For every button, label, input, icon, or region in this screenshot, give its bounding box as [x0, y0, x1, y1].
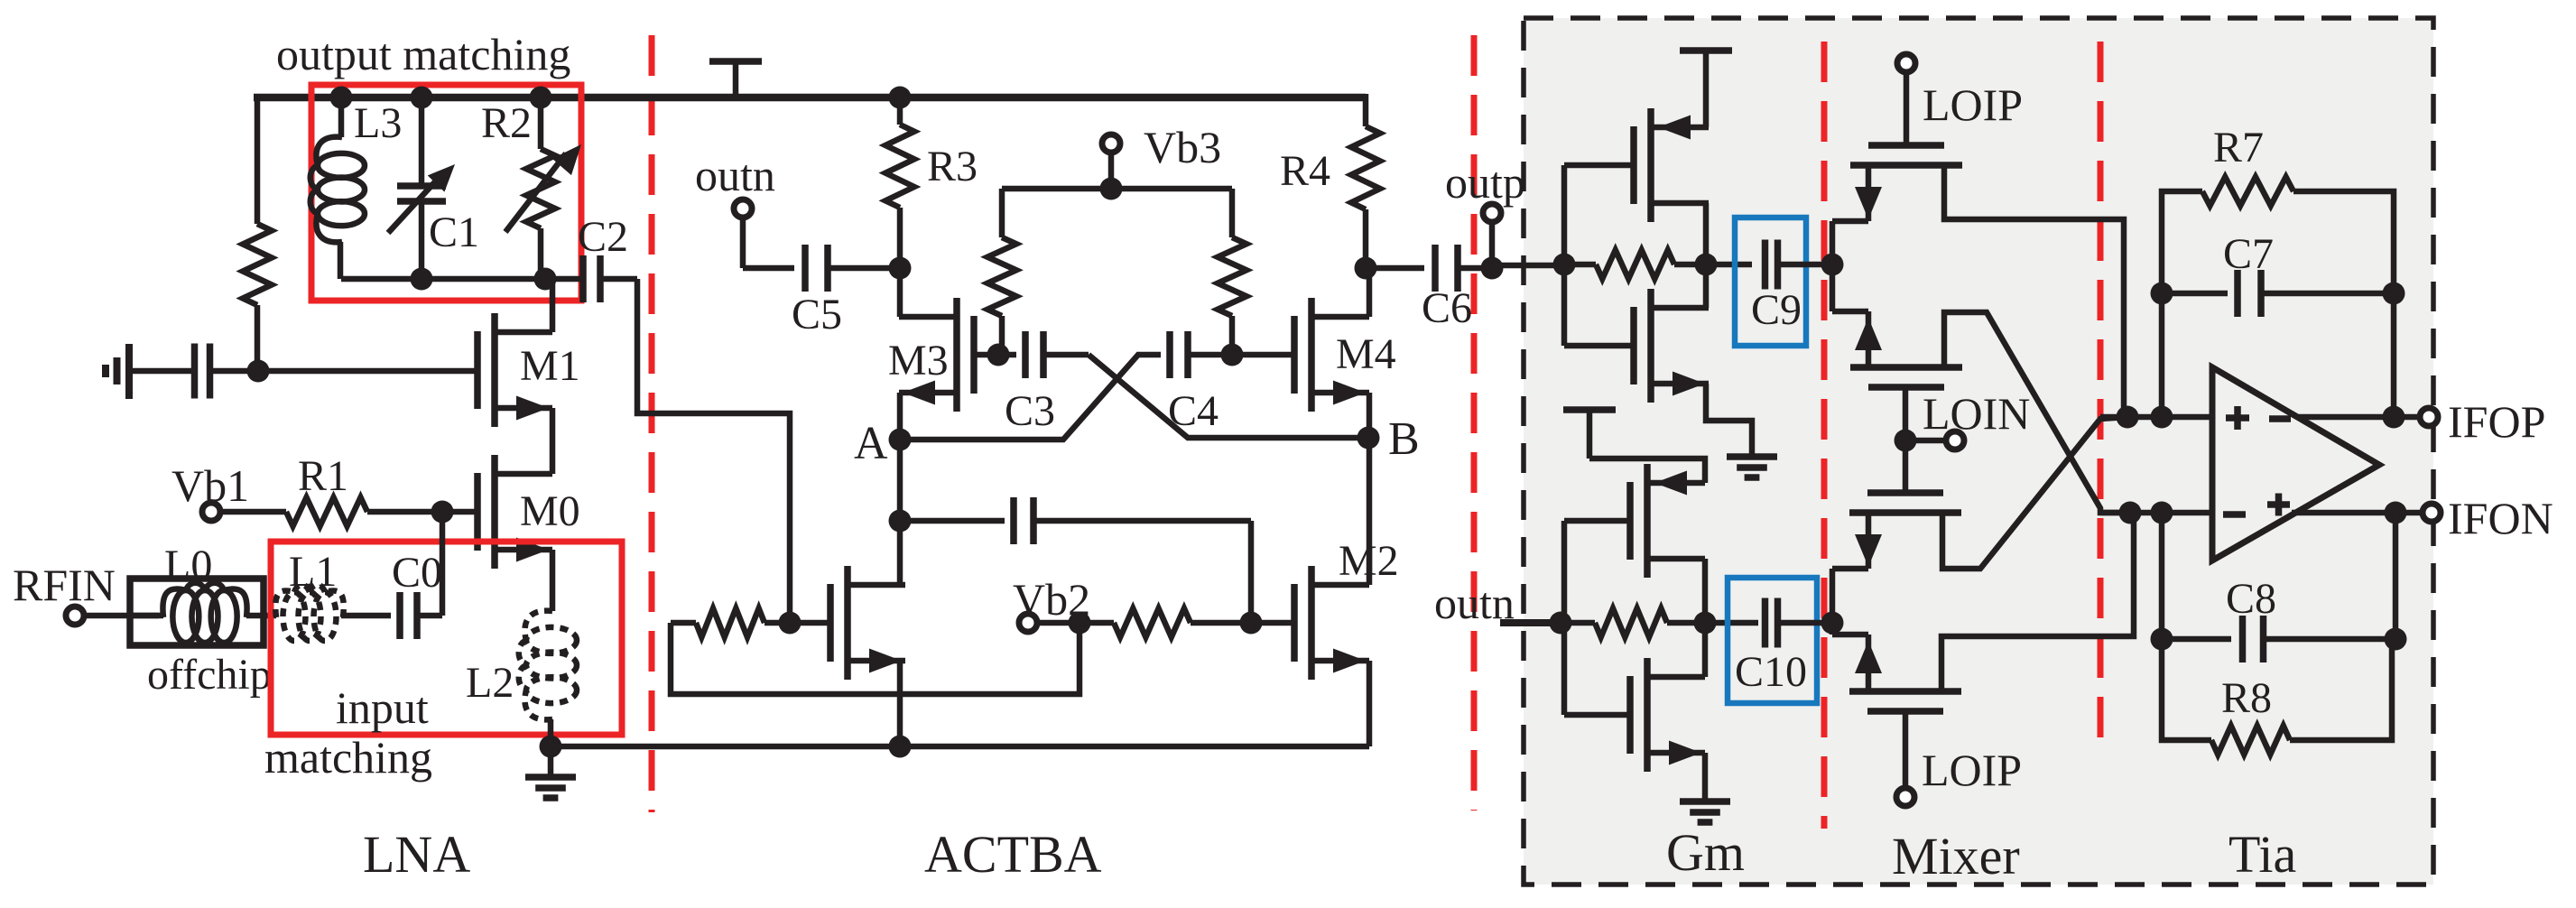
wire: Gm lower PMOS source to VDD: [1589, 459, 1705, 483]
capacitor (M1 gate decoupling, unlabeled): [129, 344, 258, 399]
wire: bias resistor to M1 gate node: [255, 305, 261, 371]
node: R7/C7 left: [2151, 283, 2173, 305]
wire: M3 drain up to R3 node: [897, 268, 903, 317]
variable capacitor C1: [388, 97, 455, 279]
node: rail / R2 top: [530, 87, 552, 109]
transistor (Gm upper NMOS): [1634, 289, 1709, 403]
wire: bottom source rail (LNA to M2): [551, 744, 1369, 750]
label R8: [2221, 674, 2272, 722]
wire: op-amp to IFON: [2292, 510, 2432, 516]
svg-text:R8: R8: [2221, 674, 2272, 722]
label M2: [1339, 537, 1399, 585]
svg-text:IFON: IFON: [2448, 493, 2553, 543]
label C10: [1735, 648, 1807, 696]
node: Gm lower input: [1550, 612, 1572, 635]
wire: Gm upper NMOS gate lead: [1564, 343, 1634, 349]
svg-text:LOIN: LOIN: [1923, 388, 2030, 439]
node: outp junction: [1481, 257, 1504, 280]
label Tia: [2229, 825, 2296, 884]
VDD top rail: [254, 94, 1366, 102]
op-amp (fully differential TIA amplifier): [2212, 367, 2379, 561]
svg-text:R2: R2: [481, 99, 532, 147]
terminal Vb1: [202, 503, 220, 521]
svg-text:B: B: [1388, 413, 1420, 465]
wire: Gm lower PMOS drain to feedback node: [1702, 559, 1709, 623]
wire: M4 drain up to R4 node: [1367, 268, 1373, 317]
node: A-column / coupling cap: [889, 510, 912, 533]
wire: upper-pair LOIN device output (diagonal to IFON row): [1944, 312, 2130, 513]
svg-text:LNA: LNA: [363, 825, 470, 884]
label M1: [520, 342, 580, 390]
label C3: [1005, 387, 1055, 435]
node: R3 bottom / C5 / M3 drain: [889, 257, 912, 280]
resistor (Gm lower feedback, unlabeled): [1561, 608, 1705, 637]
node: Vb3 junction: [1100, 178, 1123, 200]
transistor M2: [1294, 566, 1369, 680]
capacitor C0: [400, 592, 442, 639]
terminal Vb3: [1102, 134, 1120, 153]
label M3: [888, 337, 949, 385]
label R2: [481, 99, 532, 147]
capacitor C4: [1170, 331, 1232, 378]
resistor (Vb3 right bias): [1218, 189, 1246, 355]
svg-text:L2: L2: [466, 659, 514, 707]
terminal IFON: [2423, 504, 2441, 522]
wire: Gm upper PMOS gate lead: [1564, 162, 1634, 169]
label IFOP: [2448, 396, 2545, 447]
label LOIP (upper): [1923, 79, 2023, 130]
node: rail / L3 top: [330, 87, 353, 109]
node: IFOP: [2383, 406, 2405, 429]
label R3: [927, 143, 978, 190]
label M4: [1336, 330, 1396, 378]
transistor M0 (LNA input device): [477, 455, 552, 569]
label A: [854, 418, 888, 469]
terminal LOIP (lower): [1896, 788, 1914, 806]
capacitor C9: [1765, 240, 1833, 290]
wire: M3 source down to node A: [897, 393, 903, 440]
label input: [336, 682, 429, 733]
blue box around C9: [1735, 218, 1806, 346]
label Vb3: [1144, 122, 1221, 172]
resistor (feedback transistor gate, unlabeled): [671, 608, 790, 637]
wire: lower-pair LOIP device output: [1941, 513, 2134, 691]
wire: Gm upper NMOS source to ground: [1706, 384, 1752, 457]
node: IFON: [2385, 502, 2407, 524]
inductor L0: [130, 583, 264, 643]
svg-text:C9: C9: [1751, 286, 1802, 334]
svg-text:output matching: output matching: [276, 29, 570, 79]
svg-text:ACTBA: ACTBA: [924, 825, 1102, 884]
capacitor C2: [583, 255, 637, 302]
svg-text:R3: R3: [927, 143, 978, 190]
wire: Gm lower NMOS source to ground: [1702, 753, 1709, 801]
wire: M2 drain up to node B: [1367, 438, 1373, 585]
transistor (ACTBA feedback, unlabeled): [830, 566, 905, 680]
wire: outn stub into Gm: [1500, 619, 1561, 626]
label matching: [264, 732, 432, 783]
transistor (Gm lower NMOS): [1630, 658, 1705, 772]
node: bottom rail / ACTBA tail: [889, 736, 912, 758]
transistor (Gm lower PMOS): [1630, 464, 1705, 578]
wire+arrow: lower-pair LOIN device left lead: [1832, 513, 1882, 569]
wire: M1 source to M0 drain: [550, 408, 556, 474]
wire: IFOP row into op-amp: [2100, 414, 2212, 421]
wire+arrow: upper-pair LOIN device left lead: [1832, 311, 1882, 366]
red dashed separator line (ACTBA | Gm): [1471, 35, 1478, 811]
wire: rail right corner: [1363, 94, 1369, 126]
node B: [1357, 427, 1380, 449]
wire: feedback left column to + input: [2159, 293, 2165, 417]
node: M0 gate / C0 junction: [431, 501, 454, 523]
node: C9 / mixer input (upper): [1821, 254, 1844, 276]
inductor L1 (on-chip, dashed): [275, 585, 344, 641]
svg-text:offchip: offchip: [147, 651, 272, 699]
ground symbol (Gm upper): [1727, 457, 1777, 477]
ground symbol (Gm lower): [1680, 801, 1730, 822]
svg-text:C7: C7: [2223, 230, 2274, 278]
red dashed separator line (Gm | Mixer): [1821, 42, 1828, 829]
wire: M0 source to L2: [550, 550, 556, 611]
node: mixer output / op-amp + input (a): [2117, 406, 2139, 429]
label IFON: [2448, 493, 2553, 543]
svg-text:Mixer: Mixer: [1892, 827, 2020, 885]
label L0: [164, 542, 212, 589]
inductor L2 (degeneration, dashed): [519, 611, 577, 746]
label M0: [520, 487, 580, 535]
node: R4 bottom / C6: [1355, 257, 1377, 280]
capacitor C8: [2162, 616, 2395, 662]
capacitor C5: [743, 219, 900, 292]
label L3: [354, 99, 402, 147]
terminal IFOP: [2420, 408, 2438, 426]
wire: Gm lower NMOS gate lead: [1564, 712, 1630, 718]
svg-text:R7: R7: [2213, 124, 2264, 171]
wire: M4 gate lead: [1232, 352, 1295, 358]
wire: mixer upper input vertical: [1830, 221, 1836, 311]
wire: Vb3 rail: [1002, 186, 1232, 192]
red box around output matching network: [311, 85, 581, 301]
label ACTBA: [924, 825, 1102, 884]
label L2: [466, 659, 514, 707]
transistor (mixer lower pair, LOIP device): [1849, 691, 1961, 711]
node: C8/R8 right: [2385, 628, 2407, 651]
capacitor (A to M2 gate coupling, unlabeled): [900, 497, 1251, 623]
label Vb2: [1013, 574, 1090, 625]
label Vb1: [171, 460, 249, 511]
red dashed separator line (LNA | ACTBA): [649, 35, 655, 812]
wire: mixer lower input vertical: [1830, 569, 1836, 635]
wire: feedback right column to IFOP: [2391, 293, 2397, 417]
wire: L1 to C0: [341, 613, 391, 619]
wire: offchip box to L1: [264, 613, 276, 619]
svg-text:L1: L1: [289, 548, 337, 596]
wire: Gm upper NMOS drain to feedback node: [1703, 264, 1710, 308]
wire: Vb1 to R1: [222, 509, 286, 515]
svg-text:L3: L3: [354, 99, 402, 147]
svg-text:LOIP: LOIP: [1922, 745, 2022, 795]
node: M2 gate junction: [1240, 612, 1263, 635]
svg-text:C2: C2: [578, 213, 628, 261]
svg-text:input: input: [336, 682, 429, 733]
label: output matching: [276, 29, 570, 79]
wire: feedback transistor drain up to A column: [897, 521, 903, 585]
wire+arrow: lower-pair LOIP device left lead: [1832, 635, 1882, 691]
resistor R7: [2162, 177, 2394, 293]
node: feedback transistor gate: [779, 612, 802, 635]
svg-text:C1: C1: [429, 208, 479, 256]
label LNA: [363, 825, 470, 884]
wire: lower-pair LOIN device output (diagonal to IFOP row): [1942, 417, 2127, 569]
VDD symbol (Gm lower): [1563, 410, 1616, 459]
transistor M4: [1294, 298, 1369, 412]
wire: M2 gate lead: [1251, 620, 1295, 626]
node: mixer output / op-amp - input (a): [2119, 502, 2142, 524]
node: Gm upper output: [1695, 254, 1718, 276]
label RFIN: [13, 560, 116, 610]
svg-text:C4: C4: [1168, 387, 1219, 435]
wire: node A down: [897, 440, 903, 521]
label C0: [392, 549, 442, 597]
terminal Vb2: [1019, 614, 1037, 632]
wire: R1 to M0 gate: [367, 509, 477, 515]
node: L2 / ground / ACTBA source rail: [540, 736, 562, 758]
label C8: [2226, 575, 2276, 623]
red dashed separator line (Mixer | Tia): [2098, 42, 2104, 743]
wire: Gm upper gates vertical: [1561, 165, 1568, 346]
wire: feedback transistor source down to rail: [897, 661, 903, 746]
wire: rail left corner down to bias resistor: [255, 94, 261, 224]
label L1: [289, 548, 337, 596]
label R7: [2213, 124, 2264, 171]
wire: Gm lower NMOS drain to feedback node: [1702, 623, 1709, 677]
label R1: [298, 452, 348, 500]
transistor M3: [899, 298, 974, 412]
svg-text:LOIP: LOIP: [1923, 79, 2023, 130]
terminal RFIN: [66, 607, 84, 625]
label C9: [1751, 286, 1802, 334]
inductor L3: [310, 97, 365, 279]
resistor R4: [1351, 126, 1380, 268]
wire: feedback gate resistor loop: [671, 623, 1080, 694]
svg-text:matching: matching: [264, 732, 432, 783]
svg-text:C5: C5: [792, 291, 842, 338]
shaded block containing Gm / Mixer / Tia sections: [1524, 18, 2433, 885]
transistor (mixer lower pair, LOIN device): [1849, 493, 1961, 513]
node: rail / C1 top: [411, 87, 433, 109]
capacitor C3: [998, 331, 1089, 378]
red box around input matching network: [271, 542, 622, 735]
svg-text:M3: M3: [888, 337, 949, 385]
node: rail / R3 top: [889, 87, 912, 109]
wire: upper-pair LOIP device output: [1944, 166, 2124, 417]
terminal LOIP (upper): [1897, 54, 1915, 72]
node: Vb2 junction: [1069, 612, 1091, 635]
wire: M4 source down to node B: [1367, 393, 1373, 438]
svg-text:IFOP: IFOP: [2448, 396, 2545, 447]
wire: C2 to ACTBA input transistor gate: [637, 279, 790, 623]
wire: gate node to M1 gate: [258, 368, 477, 375]
svg-text:RFIN: RFIN: [13, 560, 116, 610]
svg-text:C10: C10: [1735, 648, 1807, 696]
svg-text:A: A: [854, 418, 888, 469]
wire: RFIN to offchip box: [86, 613, 159, 619]
VDD supply symbol on top rail: [709, 61, 762, 97]
node: Gm upper input: [1553, 254, 1576, 276]
resistor (Gm upper feedback, unlabeled): [1564, 250, 1706, 279]
transistor (mixer upper pair, LOIP device): [1850, 145, 1962, 165]
node A: [889, 429, 912, 451]
label LOIP (lower): [1922, 745, 2022, 795]
wire: Gm lower gates vertical: [1561, 521, 1568, 715]
node: C10 / mixer input (lower): [1821, 612, 1844, 635]
label C4: [1168, 387, 1219, 435]
variable resistor R2: [505, 97, 581, 279]
label offchip: [147, 651, 272, 699]
wire: output matching bottom rail: [341, 276, 583, 283]
wire: LOIP lower stem: [1903, 711, 1909, 786]
node: C8/R8 left: [2151, 628, 2173, 651]
resistor R8: [2162, 639, 2392, 755]
wire: Vb3 stem: [1108, 154, 1115, 189]
node: M3 gate / C3: [987, 344, 1010, 366]
AC ground stub (decoupling, left of M1 gate cap): [106, 344, 129, 399]
wire: M3 gate lead: [974, 352, 998, 358]
capacitor C6: [1366, 245, 1492, 292]
node: M4 gate / C4: [1221, 344, 1244, 366]
transistor (mixer upper pair, LOIN device): [1850, 367, 1962, 387]
label C2: [578, 213, 628, 261]
resistor (Vb3 left bias): [987, 189, 1016, 355]
wire: LOIP stem: [1904, 74, 1910, 145]
wire: to C10: [1705, 620, 1758, 626]
svg-text:M0: M0: [520, 487, 580, 535]
node: R7/C7 right: [2383, 283, 2405, 305]
wire: IFON row down to C8 right: [2393, 513, 2399, 639]
wire: gate lead: [790, 620, 830, 626]
label outn (ACTBA): [695, 150, 775, 200]
svg-text:outn: outn: [695, 150, 775, 200]
label B: [1388, 413, 1420, 465]
wire: C0 up to M0 gate node: [440, 512, 446, 616]
label C7: [2223, 230, 2274, 278]
svg-text:Tia: Tia: [2229, 825, 2296, 884]
svg-text:C8: C8: [2226, 575, 2276, 623]
label C6: [1422, 284, 1472, 332]
svg-text:L0: L0: [164, 542, 212, 589]
label R4: [1280, 147, 1330, 195]
node: R2 / M1 drain: [534, 268, 557, 291]
svg-text:Gm: Gm: [1666, 823, 1745, 882]
resistor (LNA gate bias, unlabeled): [243, 224, 272, 305]
wire: M2 source down to rail: [1367, 661, 1373, 746]
transistor (Gm upper PMOS): [1634, 108, 1709, 222]
svg-text:R4: R4: [1280, 147, 1330, 195]
wire: - input column down to C8: [2159, 513, 2165, 639]
svg-text:M4: M4: [1336, 330, 1396, 378]
terminal LOIN: [1895, 430, 1965, 452]
wire: LOIN stem: [1903, 387, 1909, 493]
capacitor C7: [2162, 270, 2394, 317]
label Gm: [1666, 823, 1745, 882]
wire+arrow: upper-pair LOIP device left lead: [1832, 165, 1882, 221]
label outp: [1445, 157, 1525, 208]
label Mixer: [1892, 827, 2020, 885]
node: M1 gate junction: [247, 360, 270, 383]
wire: C3 cross-couple diagonal to node B: [1089, 355, 1368, 438]
blue box around C10: [1728, 578, 1817, 703]
wire: IFON row into op-amp: [2100, 510, 2212, 516]
node: C1 bottom: [411, 268, 433, 291]
resistor (Vb2 to M2 gate, unlabeled): [1080, 608, 1251, 637]
wire: outp node into Gm: [1492, 263, 1564, 269]
terminal outn (ACTBA): [734, 199, 752, 218]
svg-text:C6: C6: [1422, 284, 1472, 332]
wire: node A to C4 diagonal: [900, 355, 1161, 440]
wire: op-amp to IFOP: [2298, 414, 2429, 421]
label outn (Gm input): [1434, 578, 1515, 628]
box: offchip inductor L0: [130, 579, 264, 645]
svg-text:Vb1: Vb1: [171, 460, 249, 511]
svg-text:outp: outp: [1445, 157, 1525, 208]
label LOIN: [1923, 388, 2030, 439]
wire: M1 drain up to matching network: [550, 279, 556, 332]
node: feedback column / op-amp - input (b): [2151, 502, 2173, 524]
VDD symbol (Gm upper): [1680, 51, 1732, 127]
wire: Gm upper PMOS drain to feedback node: [1703, 203, 1710, 264]
wire: to C9: [1706, 262, 1752, 268]
node: feedback column / op-amp + input (b): [2151, 406, 2173, 429]
capacitor C10: [1765, 598, 1836, 648]
resistor R3: [885, 97, 914, 268]
resistor R1: [286, 497, 367, 526]
transistor M1 (LNA cascode): [477, 313, 552, 427]
wire: Gm lower PMOS gate lead: [1564, 518, 1630, 524]
label C5: [792, 291, 842, 338]
node: Gm lower output: [1694, 612, 1717, 635]
svg-text:Vb3: Vb3: [1144, 122, 1221, 172]
terminal outp: [1483, 204, 1501, 268]
svg-text:R1: R1: [298, 452, 348, 500]
wire: Vb2 to junction: [1039, 620, 1080, 626]
svg-text:M1: M1: [520, 342, 580, 390]
label C1: [429, 208, 479, 256]
svg-text:C3: C3: [1005, 387, 1055, 435]
svg-text:C0: C0: [392, 549, 442, 597]
ground symbol (LNA source): [525, 746, 576, 798]
